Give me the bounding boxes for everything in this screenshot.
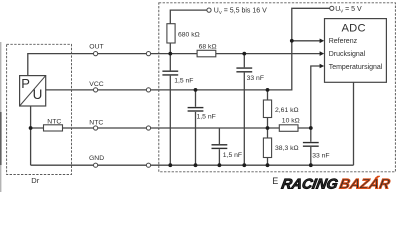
pin arrow Referenz	[320, 39, 325, 44]
sensor element box P/U	[20, 76, 46, 106]
diagonal of P/U box	[20, 76, 46, 106]
svg-text:Drucksignal: Drucksignal	[329, 51, 366, 58]
svg-text:UV = 5 V: UV = 5 V	[335, 6, 362, 14]
svg-text:1,5 nF: 1,5 nF	[174, 78, 193, 85]
svg-text:NTC: NTC	[47, 118, 61, 125]
svg-text:Temperatursignal: Temperatursignal	[329, 64, 383, 71]
resistor 680k	[167, 24, 175, 43]
wire NTC row	[31, 127, 311, 129]
wire capacitor B drop	[195, 90, 197, 165]
logo RACING BAZAR	[280, 176, 392, 192]
supply terminal circle Uv 5.5-16V	[207, 8, 211, 12]
wire supply 5.5-16V	[170, 10, 207, 54]
wire NTC vertical from sensor element	[30, 106, 32, 165]
wire capacitor 33nF bottom drop	[310, 128, 312, 165]
svg-text:1,5 nF: 1,5 nF	[223, 152, 242, 159]
svg-text:2,61 kΩ: 2,61 kΩ	[275, 107, 299, 114]
pin arrow Drucksignal	[320, 51, 325, 56]
terminal circles sensor side	[94, 52, 98, 56]
capacitor C_A 1.5nF	[162, 70, 194, 84]
svg-text:VCC: VCC	[89, 81, 103, 88]
wire VCC net to 5V vertical	[46, 8, 330, 90]
svg-text:680 kΩ: 680 kΩ	[178, 32, 200, 39]
svg-text:Referenz: Referenz	[329, 38, 358, 45]
resistor NTC	[44, 125, 63, 131]
junction dots	[168, 52, 172, 56]
svg-text:BAZÁR: BAZÁR	[338, 176, 392, 192]
resistor 2.61k	[263, 100, 271, 118]
capacitor C_B 1.5nF	[187, 107, 216, 121]
resistor 10k	[279, 125, 298, 132]
svg-text:10 kΩ: 10 kΩ	[282, 117, 300, 124]
terminal circles ECU side	[146, 52, 150, 56]
wire ADC ground lead	[353, 82, 355, 165]
wire Temperatursignal lead	[311, 66, 321, 128]
resistor 68k	[197, 50, 216, 57]
svg-text:RACING: RACING	[280, 176, 339, 192]
resistor 38.3k	[263, 138, 271, 158]
supply terminal circle Uv 5V	[330, 6, 334, 10]
svg-text:GND: GND	[89, 155, 104, 162]
svg-text:U: U	[33, 87, 43, 102]
wire Referenz lead	[292, 40, 321, 42]
capacitor 33nF bottom	[302, 142, 329, 160]
wire OUT net	[28, 54, 321, 76]
wire capacitor 33nF top drop	[243, 54, 245, 166]
svg-text:OUT: OUT	[89, 44, 103, 51]
svg-text:38,3 kΩ: 38,3 kΩ	[275, 145, 299, 152]
wire divider branch 2.61k/38.3k	[267, 90, 269, 165]
svg-text:ADC: ADC	[342, 22, 366, 34]
svg-text:33 nF: 33 nF	[247, 75, 264, 82]
capacitor C_C 1.5nF	[211, 144, 242, 159]
ADC box U1	[325, 19, 387, 83]
svg-text:Dr: Dr	[31, 176, 39, 185]
svg-text:1,5 nF: 1,5 nF	[197, 113, 216, 120]
svg-text:P: P	[21, 76, 30, 91]
wire capacitor C drop	[218, 128, 220, 165]
svg-text:NTC: NTC	[89, 120, 103, 127]
wire GND rail	[31, 164, 354, 166]
sensor outer box Dr (dashed)	[7, 44, 72, 174]
svg-text:33 nF: 33 nF	[312, 153, 329, 160]
left edge scan artifact	[0, 42, 1, 192]
svg-text:68 kΩ: 68 kΩ	[199, 44, 217, 51]
pin arrow Temperatursignal	[320, 64, 325, 69]
svg-text:E: E	[272, 176, 278, 186]
svg-text:UV = 5,5 bis 16 V: UV = 5,5 bis 16 V	[214, 8, 267, 16]
capacitor 33nF top	[236, 67, 264, 82]
ECU outer box E (dashed)	[159, 3, 396, 172]
wire capacitor A drop	[169, 54, 171, 166]
